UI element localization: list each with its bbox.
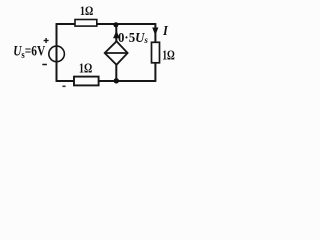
voltage source Us circle [49, 46, 65, 62]
minus polarity mark [42, 64, 47, 66]
svg-text:I: I [162, 23, 169, 39]
arrow of branch current I (points down) [152, 28, 158, 36]
wire: top rail from left corner to right corner [57, 23, 156, 25]
svg-text:1Ω: 1Ω [79, 60, 93, 76]
arrow of dependent source (points up) [113, 31, 120, 39]
svg-text:Us=6V: Us=6V [13, 42, 46, 61]
dependent current source diamond 0.5Us [105, 41, 128, 65]
node dot top junction [113, 22, 118, 27]
stray scan dash below-left of bottom resistor [62, 85, 65, 87]
wire: middle dependent-source branch vertical [115, 24, 117, 81]
wire: right branch vertical [154, 23, 156, 82]
resistor R-right box [152, 42, 160, 63]
svg-text:1Ω: 1Ω [80, 5, 93, 18]
background [0, 0, 192, 97]
plus polarity mark [44, 38, 49, 43]
resistor R-top box [75, 20, 97, 27]
svg-text:1Ω: 1Ω [162, 47, 175, 63]
wire: left branch vertical through source [56, 23, 58, 82]
node dot bottom junction [114, 78, 119, 83]
resistor R-bottom box [74, 77, 99, 86]
wire: bottom rail from left corner to right corner [57, 80, 156, 82]
svg-text:0·5Us: 0·5Us [118, 30, 148, 46]
